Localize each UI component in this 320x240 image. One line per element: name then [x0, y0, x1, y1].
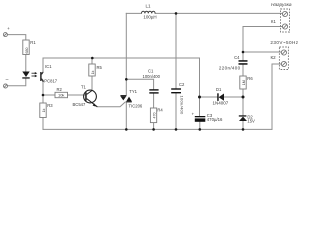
svg-text:R1: R1: [30, 40, 36, 45]
svg-text:C1: C1: [148, 69, 154, 74]
svg-text:100µH: 100µH: [143, 15, 156, 20]
svg-text:470: 470: [153, 113, 157, 119]
svg-text:IC1: IC1: [45, 64, 52, 69]
svg-text:220n/400: 220n/400: [219, 66, 241, 71]
svg-text:15V: 15V: [247, 118, 255, 123]
svg-text:1N4007: 1N4007: [213, 100, 229, 105]
svg-text:10k: 10k: [58, 93, 64, 98]
svg-text:Нагрузка: Нагрузка: [271, 2, 292, 8]
svg-text:R3: R3: [47, 103, 53, 108]
svg-text:T1: T1: [81, 85, 87, 90]
svg-text:BC547: BC547: [73, 102, 86, 107]
svg-text:+: +: [7, 26, 10, 31]
svg-text:680: 680: [25, 48, 29, 54]
svg-text:470µ/16: 470µ/16: [207, 117, 223, 122]
svg-text:1k: 1k: [42, 108, 46, 112]
svg-text:PC817: PC817: [44, 79, 57, 84]
svg-text:100n/400: 100n/400: [143, 74, 161, 79]
svg-text:К2: К2: [271, 55, 277, 60]
svg-text:TY1: TY1: [129, 89, 137, 94]
svg-text:1k: 1k: [91, 70, 95, 74]
svg-text:R4: R4: [157, 107, 163, 112]
svg-text:100n/400: 100n/400: [180, 96, 185, 116]
svg-text:–: –: [6, 77, 9, 83]
svg-text:TIC206: TIC206: [129, 103, 143, 108]
svg-text:R5: R5: [97, 65, 103, 70]
svg-text:C2: C2: [179, 82, 185, 87]
svg-text:R6: R6: [247, 76, 253, 81]
svg-text:1M: 1M: [242, 80, 246, 85]
svg-text:C4: C4: [234, 55, 240, 60]
svg-text:R2: R2: [57, 87, 63, 92]
svg-text:230V~50Hz: 230V~50Hz: [270, 40, 298, 45]
svg-text:К1: К1: [271, 19, 276, 24]
svg-text:+: +: [192, 111, 195, 116]
svg-text:D1: D1: [216, 87, 222, 92]
svg-text:L1: L1: [145, 3, 151, 8]
